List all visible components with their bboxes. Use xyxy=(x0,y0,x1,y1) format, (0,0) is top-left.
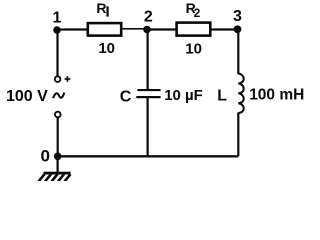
resistor R1 xyxy=(88,23,121,35)
wire source branch: node 1 down to + terminal xyxy=(56,30,58,76)
wire inductor branch: node 3 down to L xyxy=(237,30,239,75)
wire bottom rail xyxy=(58,155,239,157)
svg-text:10 µF: 10 µF xyxy=(164,87,203,104)
wire top rail: node 1 to R1 xyxy=(57,28,87,30)
wire inductor branch: L down to bottom rail xyxy=(237,113,239,157)
node 3 junction dot xyxy=(234,25,242,33)
svg-text:C: C xyxy=(120,88,132,105)
wire top rail: R2 to node 3 xyxy=(211,28,238,30)
source terminal circle (+) xyxy=(55,76,61,82)
plus sign xyxy=(65,76,71,82)
svg-text:100 mH: 100 mH xyxy=(249,86,304,103)
svg-text:2: 2 xyxy=(144,8,153,25)
svg-text:100 V: 100 V xyxy=(6,88,48,105)
source terminal circle (bottom) xyxy=(55,112,61,118)
svg-text:10: 10 xyxy=(185,40,202,57)
node 0 junction dot xyxy=(54,153,62,161)
capacitor C plates xyxy=(136,90,160,97)
svg-text:2: 2 xyxy=(194,6,201,20)
ground xyxy=(39,172,71,182)
svg-text:L: L xyxy=(217,88,227,105)
svg-text:R: R xyxy=(96,0,106,16)
wire capacitor branch: node 2 down to C xyxy=(147,30,149,90)
svg-text:10: 10 xyxy=(98,40,115,57)
wire capacitor branch: C down to bottom rail xyxy=(147,98,149,157)
resistor R2 xyxy=(177,23,211,36)
svg-text:0: 0 xyxy=(40,147,49,166)
svg-text:1: 1 xyxy=(53,9,62,26)
inductor L coil xyxy=(238,74,243,114)
wire node 0 to ground xyxy=(56,156,58,172)
node 1 junction dot xyxy=(53,26,61,34)
wire top rail: R1 to node 2 xyxy=(122,28,147,30)
AC tilde symbol xyxy=(53,93,64,99)
node 2 junction dot xyxy=(143,26,151,34)
wire source branch: bottom terminal down to node 0 xyxy=(57,118,59,157)
wire top rail: node 2 to R2 xyxy=(147,28,176,30)
svg-text:3: 3 xyxy=(233,8,242,25)
